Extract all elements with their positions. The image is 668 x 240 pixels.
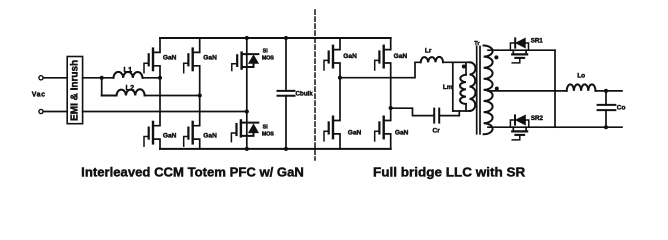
capacitor Cbulk xyxy=(278,38,314,149)
wire Vac- to EMI xyxy=(43,111,67,113)
node output top xyxy=(604,89,608,93)
svg-text:GaN: GaN xyxy=(348,130,362,137)
svg-text:L2: L2 xyxy=(126,83,135,92)
transistor SR1 xyxy=(510,37,543,63)
svg-text:Cr: Cr xyxy=(433,127,441,134)
wire Lr to primary top xyxy=(443,61,470,63)
svg-text:Lm: Lm xyxy=(443,84,453,91)
wire secondary bottom tap xyxy=(488,126,555,128)
node L1/L2 split xyxy=(100,76,104,80)
svg-text:L1: L1 xyxy=(124,65,133,74)
transistor GaN LS2 xyxy=(184,96,217,149)
wire L2 to leg2 node xyxy=(145,95,200,97)
wire node A to Lr xyxy=(340,62,421,77)
svg-text:GaN: GaN xyxy=(203,55,217,62)
wire SR common vertical xyxy=(554,50,556,127)
EMI & Inrush block xyxy=(67,57,82,124)
wire Lo to output xyxy=(596,90,623,92)
wire bottom rail xyxy=(160,148,391,150)
transistor SiMOS top xyxy=(232,49,274,71)
wire tank bottom bus xyxy=(453,110,470,112)
svg-text:Lo: Lo xyxy=(577,73,585,80)
transistor GaN HS-A xyxy=(324,38,357,78)
inductor L2 xyxy=(102,89,145,95)
capacitor Cr xyxy=(433,109,441,135)
node bridge leg B xyxy=(389,106,393,110)
wire Vac+ to EMI xyxy=(43,77,67,79)
transistor GaN LS1 xyxy=(144,78,177,149)
node primary dot xyxy=(462,65,466,69)
svg-text:SR2: SR2 xyxy=(531,115,544,122)
inductor L1 xyxy=(114,72,143,78)
svg-text:Co: Co xyxy=(617,105,626,112)
transformer Tr secondary xyxy=(484,46,493,135)
svg-text:Tr: Tr xyxy=(474,41,480,47)
svg-text:GaN: GaN xyxy=(395,130,409,137)
svg-text:MOS: MOS xyxy=(262,56,274,62)
node switch leg2 xyxy=(198,93,202,97)
node rail Cbulk xyxy=(284,36,288,40)
svg-text:GaN: GaN xyxy=(343,53,357,60)
node bottom rail SiMOS xyxy=(245,147,249,151)
transformer Tr primary xyxy=(470,62,476,111)
transformer Tr core xyxy=(476,47,478,134)
transistor GaN HS2 xyxy=(184,38,217,96)
wire EMI top out xyxy=(83,77,114,79)
wire Cr to bottom bus xyxy=(439,111,459,116)
wire neutral EMI to SiMOS leg xyxy=(83,111,247,113)
wire branch down to L2 xyxy=(101,78,103,96)
terminal Vac- xyxy=(39,109,43,113)
wire output bottom rail xyxy=(555,126,622,128)
node neutral at SiMOS leg xyxy=(245,109,249,113)
wire L1 to node xyxy=(143,77,161,79)
node bridge leg A xyxy=(338,76,342,80)
wire secondary top tap xyxy=(488,49,555,51)
wire top rail xyxy=(160,37,391,39)
capacitor Co xyxy=(598,91,626,127)
terminal Vac+ xyxy=(39,76,43,80)
wire tank left side xyxy=(452,62,454,111)
transistor GaN LS-B xyxy=(375,108,409,149)
node output bottom xyxy=(604,125,608,129)
inductor Lm xyxy=(443,62,466,111)
wire SiMOS leg xyxy=(246,38,248,149)
svg-text:GaN: GaN xyxy=(163,55,177,62)
svg-text:Si: Si xyxy=(263,49,269,55)
svg-text:SR1: SR1 xyxy=(531,37,544,44)
inductor Lr xyxy=(421,57,443,62)
transistor GaN HS-B xyxy=(375,38,408,108)
node secondary dot center xyxy=(495,87,499,91)
node rail SiMOS xyxy=(245,36,249,40)
node secondary dot top xyxy=(494,55,498,59)
svg-text:Vac: Vac xyxy=(32,91,46,98)
svg-text:GaN: GaN xyxy=(394,53,408,60)
transistor GaN HS1 xyxy=(144,38,177,78)
node switch leg1 xyxy=(158,76,162,80)
transistor GaN LS-A xyxy=(324,78,361,149)
svg-text:Interleaved CCM Totem PFC w/ G: Interleaved CCM Totem PFC w/ GaN xyxy=(81,164,304,179)
transistor SiMOS bottom xyxy=(231,120,274,141)
svg-text:MOS: MOS xyxy=(262,131,274,137)
wire secondary center tap xyxy=(488,90,567,92)
svg-text:Lr: Lr xyxy=(425,48,432,55)
svg-text:GaN: GaN xyxy=(163,133,177,140)
svg-text:Cbulk: Cbulk xyxy=(296,91,314,98)
svg-text:GaN: GaN xyxy=(203,133,217,140)
svg-text:Si: Si xyxy=(263,124,269,130)
transistor SR2 xyxy=(510,115,543,140)
svg-text:EMI & Inrush: EMI & Inrush xyxy=(69,60,80,121)
svg-text:Full bridge LLC with SR: Full bridge LLC with SR xyxy=(373,164,526,179)
wire node B to Cr xyxy=(391,108,435,115)
node bottom rail Cbulk xyxy=(284,147,288,151)
dashed separator xyxy=(314,10,316,160)
inductor Lo xyxy=(567,84,596,91)
